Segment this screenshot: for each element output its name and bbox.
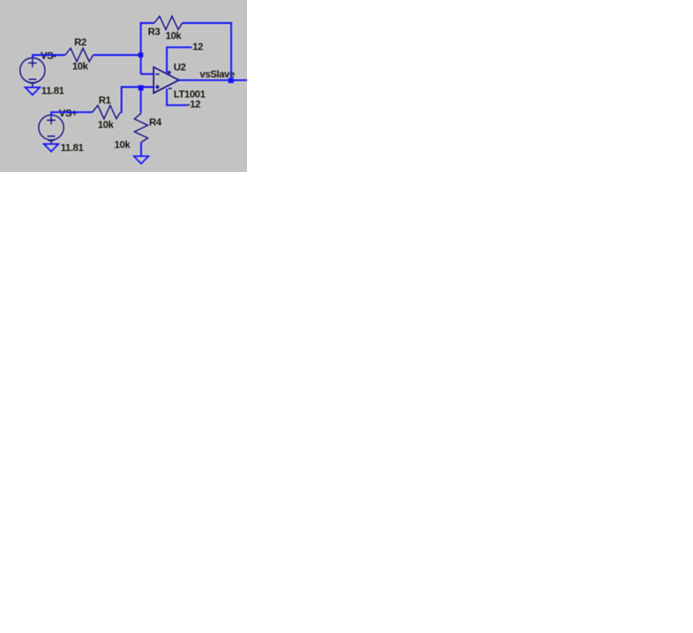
svg-text:R3: R3 [148, 27, 161, 38]
svg-text:-12: -12 [187, 100, 201, 111]
svg-text:R1: R1 [99, 95, 112, 106]
svg-text:VS+: VS+ [59, 108, 78, 119]
svg-text:10k: 10k [114, 140, 130, 151]
svg-text:R4: R4 [149, 117, 162, 128]
svg-text:U2: U2 [174, 63, 187, 74]
svg-text:VS-: VS- [41, 51, 57, 62]
svg-text:12: 12 [193, 42, 204, 53]
svg-text:10k: 10k [98, 120, 114, 131]
svg-text:10k: 10k [72, 62, 88, 73]
svg-text:11.81: 11.81 [61, 143, 85, 154]
svg-text:R2: R2 [74, 38, 87, 49]
svg-text:10k: 10k [166, 31, 182, 42]
svg-text:11.81: 11.81 [41, 86, 65, 97]
